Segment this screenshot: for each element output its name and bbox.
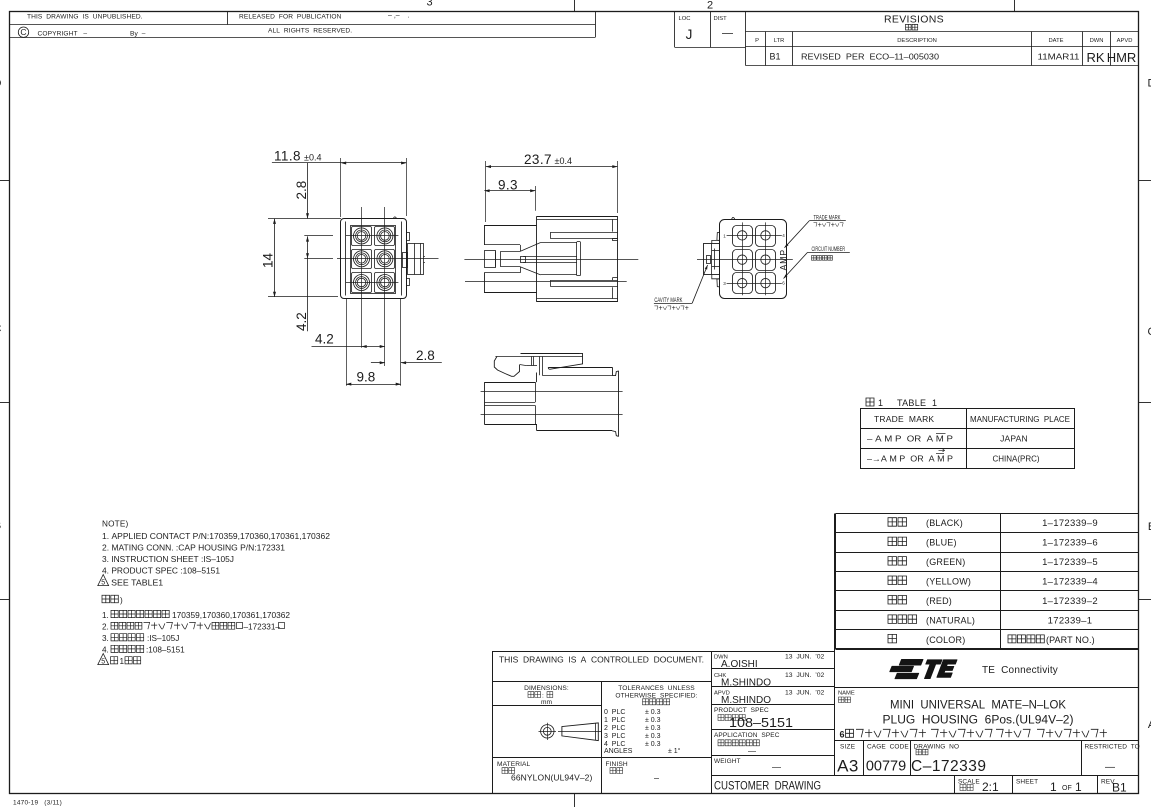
svg-text:JAPAN: JAPAN (1000, 434, 1028, 444)
svg-text:PLUG HOUSING 6Pos.(UL94V–2): PLUG HOUSING 6Pos.(UL94V–2) (883, 715, 1074, 727)
svg-text:2.8: 2.8 (416, 348, 435, 363)
svg-text:1. APPLIED CONTACT P/N:170359,: 1. APPLIED CONTACT P/N:170359,170360,170… (102, 532, 330, 541)
svg-text:1470-19 (3/11): 1470-19 (3/11) (13, 800, 62, 807)
svg-text:1: 1 (1050, 780, 1057, 794)
svg-text:D: D (0, 78, 2, 90)
svg-text:(BLUE): (BLUE) (926, 538, 957, 548)
svg-text:SHEET: SHEET (1016, 779, 1038, 786)
svg-text:170359,170360,170361,170362: 170359,170360,170361,170362 (172, 611, 290, 620)
svg-text:66NYLON(UL94V–2): 66NYLON(UL94V–2) (511, 773, 593, 783)
svg-text:APPLICATION SPEC: APPLICATION SPEC (714, 732, 780, 739)
svg-text:4 PLC: 4 PLC (604, 741, 625, 748)
svg-text:3.: 3. (102, 634, 109, 643)
svg-text::IS–105J: :IS–105J (147, 634, 179, 643)
svg-text:REVISED PER ECO–11–005030: REVISED PER ECO–11–005030 (801, 53, 940, 62)
svg-text:DWN: DWN (1090, 38, 1104, 44)
svg-text:DATE: DATE (1048, 38, 1063, 44)
svg-text:—: — (722, 28, 733, 40)
svg-text:1: 1 (120, 657, 125, 666)
svg-text:DESCRIPTION: DESCRIPTION (897, 38, 937, 44)
svg-text:± 0.3: ± 0.3 (645, 709, 661, 716)
svg-text:THIS DRAWING IS UNPUBLISHED: THIS DRAWING IS UNPUBLISHED. (27, 13, 143, 20)
svg-text:—: — (748, 747, 756, 756)
svg-text:CUSTOMER DRAWING: CUSTOMER DRAWING (714, 781, 821, 793)
svg-text:OF: OF (1062, 785, 1072, 792)
svg-text:LTR: LTR (774, 38, 785, 44)
svg-text:TOLERANCES UNLESS: TOLERANCES UNLESS (618, 685, 695, 692)
svg-text:TE Connectivity: TE Connectivity (982, 665, 1058, 676)
svg-text:108–5151: 108–5151 (729, 715, 793, 730)
svg-text:C: C (1148, 326, 1151, 338)
svg-text:(PART NO.): (PART NO.) (1046, 635, 1095, 645)
svg-text:DIST: DIST (714, 16, 728, 22)
svg-text:2:1: 2:1 (982, 780, 999, 794)
svg-text:P: P (755, 38, 759, 44)
svg-text:—: — (1105, 762, 1115, 773)
svg-text:1: 1 (1075, 780, 1082, 794)
svg-text:J: J (686, 27, 693, 42)
svg-text:– ,– .: – ,– . (388, 13, 409, 20)
svg-text:1.: 1. (102, 611, 109, 620)
svg-text:WEIGHT: WEIGHT (714, 758, 741, 765)
svg-text:NAME: NAME (838, 691, 855, 697)
svg-text:THIS DRAWING IS A CONTROLL: THIS DRAWING IS A CONTROLLED DOCUMENT. (499, 654, 704, 664)
svg-text:CAGE CODE: CAGE CODE (867, 744, 909, 751)
svg-text:2.8: 2.8 (294, 181, 309, 200)
svg-text:–→A M P OR A M P: –→A M P OR A M P (867, 455, 953, 464)
svg-text:172339–1: 172339–1 (1048, 615, 1093, 626)
svg-text:1–172339–4: 1–172339–4 (1042, 577, 1098, 588)
svg-text:RK: RK (1086, 50, 1104, 65)
svg-text:–172331–: –172331– (244, 622, 281, 631)
svg-text:0 PLC: 0 PLC (604, 709, 625, 716)
svg-text:—: — (772, 762, 781, 772)
svg-text:(BLACK): (BLACK) (926, 518, 963, 528)
svg-text:(NATURAL): (NATURAL) (926, 615, 975, 625)
svg-text:SEE TABLE1: SEE TABLE1 (111, 578, 163, 587)
svg-text:– A M P OR A M P: – A M P OR A M P (867, 435, 953, 444)
svg-text:CAVITY MARK: CAVITY MARK (654, 297, 683, 304)
svg-text:REVISIONS: REVISIONS (884, 14, 944, 26)
svg-text:11.8: 11.8 (274, 149, 301, 164)
svg-text:5: 5 (101, 579, 105, 586)
svg-text:1 PLC: 1 PLC (604, 717, 625, 724)
svg-text:1–172339–5: 1–172339–5 (1042, 557, 1098, 568)
svg-text:–: – (654, 773, 659, 783)
svg-text:(YELLOW): (YELLOW) (926, 577, 971, 587)
svg-text:B1: B1 (1112, 781, 1127, 795)
svg-text:9.8: 9.8 (357, 370, 376, 385)
svg-text:±0.4: ±0.4 (304, 153, 321, 163)
svg-text:1–172339–2: 1–172339–2 (1042, 596, 1098, 607)
svg-text:1: 1 (723, 234, 726, 239)
svg-text:6: 6 (782, 281, 785, 286)
svg-text:13 JUN. ’02: 13 JUN. ’02 (785, 690, 825, 697)
svg-text:HMR: HMR (1107, 50, 1137, 65)
svg-text:mm: mm (541, 699, 552, 706)
svg-text:OTHERWISE SPECIFIED:: OTHERWISE SPECIFIED: (615, 692, 697, 699)
svg-text:3. INSTRUCTION SHEET :IS–105J: 3. INSTRUCTION SHEET :IS–105J (102, 555, 234, 564)
svg-text:1–172339–9: 1–172339–9 (1042, 518, 1098, 529)
svg-text:4.2: 4.2 (315, 332, 334, 347)
svg-text:(COLOR): (COLOR) (926, 635, 965, 645)
svg-text:ALL RIGHTS RESERVED.: ALL RIGHTS RESERVED. (268, 27, 352, 34)
svg-text:B: B (0, 520, 1, 532)
svg-text:3 PLC: 3 PLC (604, 733, 625, 740)
svg-text:By –: By – (130, 31, 146, 38)
svg-text:1–172339–6: 1–172339–6 (1042, 538, 1098, 549)
svg-text:00779: 00779 (866, 759, 906, 775)
svg-text:RELEASED FOR PUBLICATION: RELEASED FOR PUBLICATION (239, 13, 342, 20)
svg-text:± 0.3: ± 0.3 (645, 741, 661, 748)
svg-text:6: 6 (840, 730, 845, 740)
svg-text:± 0.3: ± 0.3 (645, 717, 661, 724)
svg-text:C: C (0, 323, 2, 335)
svg-text:23.7: 23.7 (524, 152, 552, 167)
svg-text:2. MATING CONN. :CAP HOUSING P: 2. MATING CONN. :CAP HOUSING P/N:172331 (102, 543, 285, 552)
svg-text:RESTRICTED TO: RESTRICTED TO (1085, 744, 1140, 751)
svg-text:A.OISHI: A.OISHI (721, 659, 758, 670)
svg-text:M.SHINDO: M.SHINDO (721, 695, 771, 706)
svg-text:2 PLC: 2 PLC (604, 725, 625, 732)
svg-text:LOC: LOC (679, 16, 691, 22)
svg-text:4.2: 4.2 (294, 312, 309, 331)
svg-text:NOTE): NOTE) (102, 520, 129, 529)
svg-text:3: 3 (723, 281, 726, 286)
svg-text:DIMENSIONS:: DIMENSIONS: (524, 685, 569, 692)
svg-text:1: 1 (878, 398, 883, 408)
svg-text:MATERIAL: MATERIAL (497, 761, 531, 768)
svg-text:CHINA(PRC): CHINA(PRC) (992, 455, 1039, 464)
svg-text:2: 2 (707, 0, 713, 12)
svg-text:4: 4 (782, 233, 785, 238)
svg-text:±0.4: ±0.4 (555, 156, 572, 166)
svg-text:CIRCUIT NUMBER: CIRCUIT NUMBER (812, 246, 846, 253)
svg-text:± 1°: ± 1° (668, 747, 681, 755)
svg-text:14: 14 (261, 252, 276, 268)
svg-text:PRODUCT SPEC: PRODUCT SPEC (714, 707, 769, 714)
svg-text:M.SHINDO: M.SHINDO (721, 678, 771, 689)
svg-text:D: D (1148, 78, 1151, 90)
svg-text:TRADE MARK: TRADE MARK (874, 414, 934, 424)
svg-text:(GREEN): (GREEN) (926, 557, 965, 567)
svg-text:FINISH: FINISH (606, 761, 628, 768)
svg-text:AMP: AMP (779, 249, 789, 270)
svg-text:COPYRIGHT –: COPYRIGHT – (38, 31, 88, 38)
svg-text:): ) (120, 596, 123, 605)
svg-text:C: C (20, 27, 26, 37)
svg-text:13 JUN. ’02: 13 JUN. ’02 (785, 672, 825, 679)
svg-text:TABLE 1: TABLE 1 (897, 398, 937, 408)
svg-text:(RED): (RED) (926, 596, 952, 606)
svg-text:2.: 2. (102, 622, 109, 631)
svg-text:5: 5 (101, 658, 105, 665)
svg-text:SIZE: SIZE (840, 744, 856, 751)
svg-text:C–172339: C–172339 (911, 758, 987, 775)
svg-text::108–5151: :108–5151 (146, 646, 185, 655)
svg-text:MINI UNIVERSAL MATE–N–LOK: MINI UNIVERSAL MATE–N–LOK (890, 700, 1066, 712)
svg-text:13 JUN. ’02: 13 JUN. ’02 (785, 654, 825, 661)
svg-text:3: 3 (426, 0, 432, 9)
svg-text:A3: A3 (837, 757, 859, 776)
svg-text:APVD: APVD (1117, 38, 1133, 44)
svg-text:11MAR11: 11MAR11 (1038, 53, 1081, 62)
svg-text:ANGLES: ANGLES (604, 748, 633, 755)
svg-text:4. PRODUCT SPEC :108–5151: 4. PRODUCT SPEC :108–5151 (102, 567, 220, 576)
svg-text:MANUFACTURING PLACE: MANUFACTURING PLACE (970, 414, 1070, 424)
svg-text:± 0.3: ± 0.3 (645, 733, 661, 740)
svg-text:B1: B1 (769, 52, 780, 62)
svg-text:± 0.3: ± 0.3 (645, 725, 661, 732)
